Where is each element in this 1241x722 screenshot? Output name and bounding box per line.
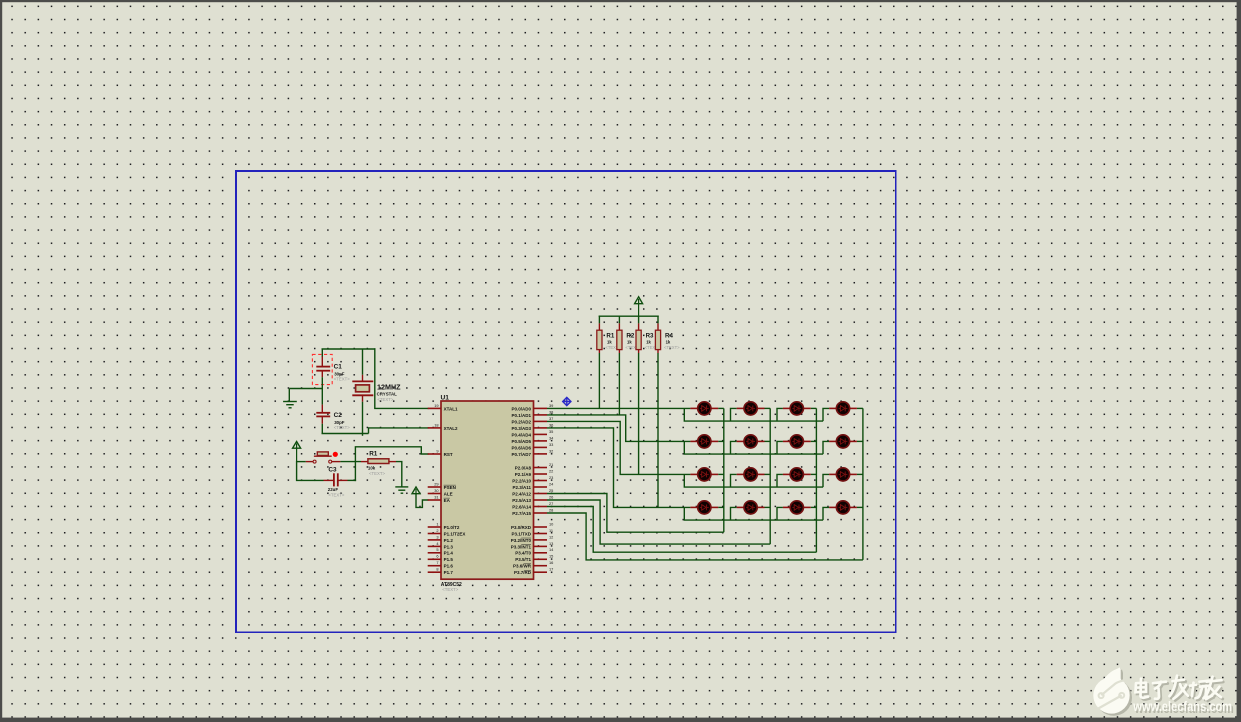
U1 pin 23 P2.2/A10: [512, 475, 553, 484]
svg-text:P2.0/A8: P2.0/A8: [515, 465, 532, 470]
svg-text:3: 3: [436, 534, 438, 539]
svg-text:1: 1: [436, 521, 438, 526]
svg-text:P2.3/A11: P2.3/A11: [512, 485, 531, 490]
wire P2.6 to column3: [547, 507, 816, 553]
U1 pin 3 P1.2: [428, 534, 454, 543]
svg-text:<TEXT>: <TEXT>: [334, 377, 350, 382]
U1 pin 19 XTAL1: [428, 403, 458, 412]
svg-text:P2.5/A13: P2.5/A13: [512, 498, 531, 503]
wire row4 button4 right link: [857, 506, 863, 508]
wire row4 jog 3: [777, 507, 783, 520]
svg-text:13: 13: [549, 541, 553, 546]
U1 pin 32 P0.7/AD7: [511, 448, 553, 457]
svg-text:36: 36: [549, 422, 553, 427]
wire row1 jog 4: [823, 408, 829, 421]
svg-text:10k: 10k: [368, 465, 376, 470]
wire VCC to C3 left: [297, 461, 324, 481]
wire row4 lower bus: [684, 507, 823, 520]
svg-text:21: 21: [549, 462, 553, 467]
svg-text:P0.0/AD0: P0.0/AD0: [511, 406, 531, 411]
svg-text:<TEXT>: <TEXT>: [369, 471, 385, 476]
svg-text:www.elecfans.com: www.elecfans.com: [1132, 699, 1232, 714]
U1 pin 25 P2.4/A12: [512, 488, 553, 497]
svg-text:8: 8: [436, 567, 438, 572]
wire row1 button3 right link: [811, 407, 817, 409]
svg-text:CRYSTAL: CRYSTAL: [377, 392, 398, 397]
U1 pin 26 P2.5/A13: [512, 494, 553, 503]
svg-text:12MHZ: 12MHZ: [377, 383, 401, 392]
svg-text:R3: R3: [646, 332, 654, 339]
svg-text:<TEXT>: <TEXT>: [377, 397, 393, 402]
wire row3 jog 3: [777, 474, 783, 487]
svg-text:C1: C1: [334, 363, 343, 370]
wire row2 lower bus: [684, 441, 823, 454]
wire button right to R1: [332, 461, 341, 463]
button row3 col3: [783, 468, 811, 481]
wire P0.3 row4: [547, 428, 690, 508]
wire P0.1 row2: [547, 415, 690, 442]
elecfans watermark chinese text: [1136, 676, 1224, 701]
op chip U1 AT89C52 body: [441, 401, 534, 579]
resistor R3 pullup: [636, 316, 641, 475]
svg-text:XTAL1: XTAL1: [444, 406, 458, 411]
crystal X1 12MHZ: [352, 381, 373, 395]
svg-text:C3: C3: [328, 466, 337, 473]
button row4 col1: [690, 501, 718, 514]
U1 pin 15 P3.5/T1: [515, 554, 553, 563]
capacitor C2: [316, 413, 330, 417]
svg-text:P2.2/A10: P2.2/A10: [512, 478, 531, 483]
svg-text:U1: U1: [441, 394, 450, 401]
button row3 col4: [829, 468, 857, 481]
svg-text:31: 31: [434, 494, 438, 499]
U1 pin 13 P3.3/INT1: [511, 541, 554, 550]
svg-text:R4: R4: [665, 332, 673, 339]
power symbol VCC reset: [293, 442, 301, 462]
wire C1 top branch: [321, 349, 323, 357]
resistor R1 reset: [368, 459, 389, 464]
svg-text:P3.4/T0: P3.4/T0: [515, 551, 531, 556]
capacitor C1: [316, 367, 330, 371]
button row1 col2: [737, 402, 765, 415]
svg-text:<TEXT>: <TEXT>: [328, 492, 344, 497]
button row2 col3: [783, 435, 811, 448]
svg-text:<TEXT>: <TEXT>: [664, 345, 680, 350]
U1 pin 7 P1.6: [428, 560, 454, 569]
C1 selection box (red dashed): [312, 354, 332, 384]
wire row4 jog 2: [731, 507, 737, 520]
svg-text:9: 9: [436, 448, 438, 453]
svg-text:32: 32: [549, 448, 553, 453]
svg-text:P1.0/T2: P1.0/T2: [444, 525, 460, 530]
wire row1 button2 right link: [765, 407, 771, 409]
wire row1 button4 right link: [857, 407, 863, 409]
wire column 4 vertical: [862, 408, 864, 560]
U1 pin 17 P3.7/RD: [514, 567, 553, 576]
wire row3 jog 4: [823, 474, 829, 487]
U1 pin 14 P3.4/T0: [515, 547, 554, 556]
svg-text:P3.7/RD: P3.7/RD: [514, 570, 532, 575]
wire XTAL2 to chip: [369, 428, 429, 434]
sheet border (blue): [236, 171, 896, 632]
svg-text:P3.1/TXD: P3.1/TXD: [511, 531, 531, 536]
U1 pin 36 P0.3/AD3: [511, 422, 553, 431]
svg-text:P0.7/AD7: P0.7/AD7: [511, 452, 531, 457]
U1 pin 38 P0.1/AD1: [511, 409, 553, 418]
resistor R1 pullup: [597, 316, 602, 409]
svg-text:23: 23: [549, 475, 553, 480]
wire row2 button3 right link: [811, 440, 817, 442]
svg-text:P2.1/A9: P2.1/A9: [515, 472, 532, 477]
button row4 col4: [829, 501, 857, 514]
ground G1: [283, 389, 297, 408]
svg-text:18: 18: [434, 422, 438, 427]
U1 pin 39 P0.0/AD0: [511, 403, 553, 412]
U1 pin 27 P2.6/A14: [512, 501, 553, 510]
svg-text:P1.4: P1.4: [444, 551, 454, 556]
wire row3 button3 right link: [811, 473, 817, 475]
wire gnd branch horizontal: [289, 388, 322, 390]
wire row3 button4 right link: [857, 473, 863, 475]
wire row2 jog 4: [823, 441, 829, 454]
U1 pin 37 P0.2/AD2: [511, 416, 553, 425]
wire row4 button2 right link: [765, 506, 771, 508]
wire crystal bottom to bus: [362, 395, 364, 402]
button row3 col1: [690, 468, 718, 481]
svg-text:35: 35: [549, 429, 553, 434]
button row1 col4: [829, 402, 857, 415]
button row3 col2: [737, 468, 765, 481]
wire row1 jog 3: [777, 408, 783, 421]
svg-text:22: 22: [549, 468, 553, 473]
svg-text:2: 2: [436, 528, 438, 533]
svg-text:XTAL2: XTAL2: [444, 426, 458, 431]
svg-text:P1.6: P1.6: [444, 564, 454, 569]
power symbol VCC pullups: [635, 297, 643, 316]
wire row2 jog 2: [731, 441, 737, 454]
U1 pin 10 P3.0/RXD: [511, 521, 554, 530]
capacitor C3: [334, 473, 338, 486]
svg-text:27: 27: [549, 501, 553, 506]
wire column 3 vertical: [815, 408, 817, 552]
wire row1 lower bus: [684, 408, 823, 421]
svg-text:39: 39: [549, 403, 553, 408]
U1 pin 18 XTAL2: [428, 422, 458, 431]
svg-text:R2: R2: [626, 332, 634, 339]
power symbol VCC EA: [412, 487, 429, 507]
wire row3 button2 right link: [765, 473, 771, 475]
wire row1 jog 2: [731, 408, 737, 421]
U1 pin 4 P1.3: [428, 541, 454, 550]
U1 pin 35 P0.4/AD4: [511, 429, 553, 438]
wire R1 right to ground: [389, 461, 396, 463]
wire C2 top stub: [321, 405, 323, 413]
svg-text:1k: 1k: [646, 340, 651, 345]
wire XTAL1 to chip: [375, 348, 429, 408]
wire row2 jog 3: [777, 441, 783, 454]
svg-text:P3.3/INT1: P3.3/INT1: [511, 544, 532, 549]
svg-text:7: 7: [436, 560, 438, 565]
U1 pin 21 P2.0/A8: [515, 462, 554, 471]
svg-text:29: 29: [434, 481, 438, 486]
svg-text:1k: 1k: [627, 340, 632, 345]
button row1 col3: [783, 402, 811, 415]
svg-text:P1.7: P1.7: [444, 570, 454, 575]
svg-text:RST: RST: [444, 452, 453, 457]
U1 pin 24 P2.3/A11: [512, 481, 554, 490]
svg-text:P1.2: P1.2: [444, 538, 454, 543]
svg-text:28: 28: [549, 507, 553, 512]
svg-text:P2.7/A15: P2.7/A15: [512, 511, 531, 516]
U1 pin 22 P2.1/A9: [515, 468, 554, 477]
button row4 col2: [737, 501, 765, 514]
U1 pin 33 P0.6/AD6: [511, 442, 553, 451]
svg-text:PSEN: PSEN: [444, 485, 456, 490]
svg-text:P3.6/WR: P3.6/WR: [513, 564, 532, 569]
resistor R2 pullup: [617, 316, 622, 415]
svg-text:C2: C2: [334, 412, 343, 419]
svg-text:P0.4/AD4: P0.4/AD4: [511, 432, 531, 437]
svg-text:1k: 1k: [607, 340, 612, 345]
svg-text:P1.5: P1.5: [444, 557, 454, 562]
svg-text:<TEXT>: <TEXT>: [442, 587, 458, 592]
wire C2 bottom to bottom bus: [321, 416, 323, 423]
wire C3 right to RST node: [338, 479, 348, 481]
wire row2 button1 right link: [718, 440, 724, 442]
svg-text:P0.3/AD3: P0.3/AD3: [511, 426, 531, 431]
U1 pin 6 P1.5: [428, 554, 454, 563]
svg-text:<TEXT>: <TEXT>: [334, 425, 350, 430]
U1 pin 9 RST: [428, 448, 453, 457]
U1 pin 29 PSEN: [428, 481, 456, 490]
svg-text:P1.3: P1.3: [444, 544, 454, 549]
svg-text:EA: EA: [444, 498, 451, 503]
wire row3 lower bus: [684, 474, 823, 487]
U1 pin 30 ALE: [428, 488, 453, 497]
wire pullup top bus: [599, 315, 659, 317]
U1 pin 28 P2.7/A15: [512, 507, 553, 516]
svg-text:P0.2/AD2: P0.2/AD2: [511, 419, 531, 424]
wire row3 jog 2: [731, 474, 737, 487]
svg-text:P0.5/AD5: P0.5/AD5: [511, 439, 531, 444]
svg-text:11: 11: [549, 528, 553, 533]
svg-text:12: 12: [549, 534, 553, 539]
U1 pin 34 P0.5/AD5: [511, 435, 554, 444]
wire button left: [297, 461, 306, 463]
wire row4 button1 right link: [718, 506, 724, 508]
svg-text:5: 5: [436, 547, 438, 552]
wire row2 button4 right link: [857, 440, 863, 442]
U1 pin 8 P1.7: [428, 567, 454, 576]
wire column 1 vertical: [723, 408, 725, 532]
elecfans watermark url: [1132, 699, 1233, 716]
wire P0.0 row1: [547, 407, 690, 409]
svg-text:R1: R1: [369, 450, 378, 457]
wire bottom bus XTAL2: [322, 433, 369, 435]
U1 pin 1 P1.0/T2: [428, 521, 460, 530]
button row2 col4: [829, 435, 857, 448]
svg-text:16: 16: [549, 560, 553, 565]
svg-text:P0.6/AD6: P0.6/AD6: [511, 445, 531, 450]
svg-text:15: 15: [549, 554, 553, 559]
button row2 col2: [737, 435, 765, 448]
button row4 col3: [783, 501, 811, 514]
wire row3 button1 right link: [718, 473, 724, 475]
resistor R4 pullup: [655, 316, 660, 508]
svg-text:P0.1/AD1: P0.1/AD1: [511, 413, 531, 418]
wire P2.7 to column4: [547, 513, 863, 560]
svg-text:1k: 1k: [666, 340, 671, 345]
wire P2.5 to column2: [547, 500, 770, 544]
svg-text:38: 38: [549, 409, 553, 414]
svg-text:P3.0/RXD: P3.0/RXD: [511, 525, 532, 530]
svg-text:25: 25: [549, 488, 553, 493]
wire RST net: [355, 447, 428, 481]
wire row2 button2 right link: [765, 440, 771, 442]
wire column 2 vertical: [769, 408, 771, 544]
ground G2: [395, 487, 408, 493]
wire crystal top branch: [362, 349, 364, 375]
wire top bus XTAL: [322, 348, 376, 350]
wire P0.2 row3: [547, 421, 690, 474]
button row1 col1: [690, 402, 718, 415]
origin marker (blue): [563, 397, 572, 405]
U1 pin 5 P1.4: [428, 547, 454, 556]
svg-text:P3.2/INT0: P3.2/INT0: [511, 538, 532, 543]
svg-text:R1: R1: [606, 332, 614, 339]
svg-text:ALE: ALE: [444, 491, 453, 496]
svg-text:19: 19: [434, 403, 438, 408]
push button RESET: [313, 452, 332, 463]
svg-text:33: 33: [549, 442, 553, 447]
wire row1 button1 right link: [718, 407, 724, 409]
wire row4 button3 right link: [811, 506, 817, 508]
U1 pin 12 P3.2/INT0: [511, 534, 554, 543]
U1 pin 31 EA: [428, 494, 451, 503]
svg-text:P1.1/T2EX: P1.1/T2EX: [444, 531, 466, 536]
wire row4 jog 4: [823, 507, 829, 520]
red state dot: [333, 452, 338, 457]
svg-text:P3.5/T1: P3.5/T1: [515, 557, 531, 562]
svg-text:P2.4/A12: P2.4/A12: [512, 491, 531, 496]
svg-text:6: 6: [436, 554, 438, 559]
svg-text:17: 17: [549, 567, 553, 572]
wire C1 bottom to gnd junction: [321, 371, 323, 378]
button row2 col1: [690, 435, 718, 448]
svg-text:26: 26: [549, 494, 553, 499]
U1 pin 2 P1.1/T2EX: [428, 528, 466, 537]
elecfans watermark logo: [1093, 667, 1132, 716]
U1 pin 16 P3.6/WR: [513, 560, 553, 569]
svg-text:37: 37: [549, 416, 553, 421]
svg-text:P2.6/A14: P2.6/A14: [512, 504, 531, 509]
wire P2.4 to column1: [547, 494, 724, 533]
U1 pin 11 P3.1/TXD: [511, 528, 553, 537]
